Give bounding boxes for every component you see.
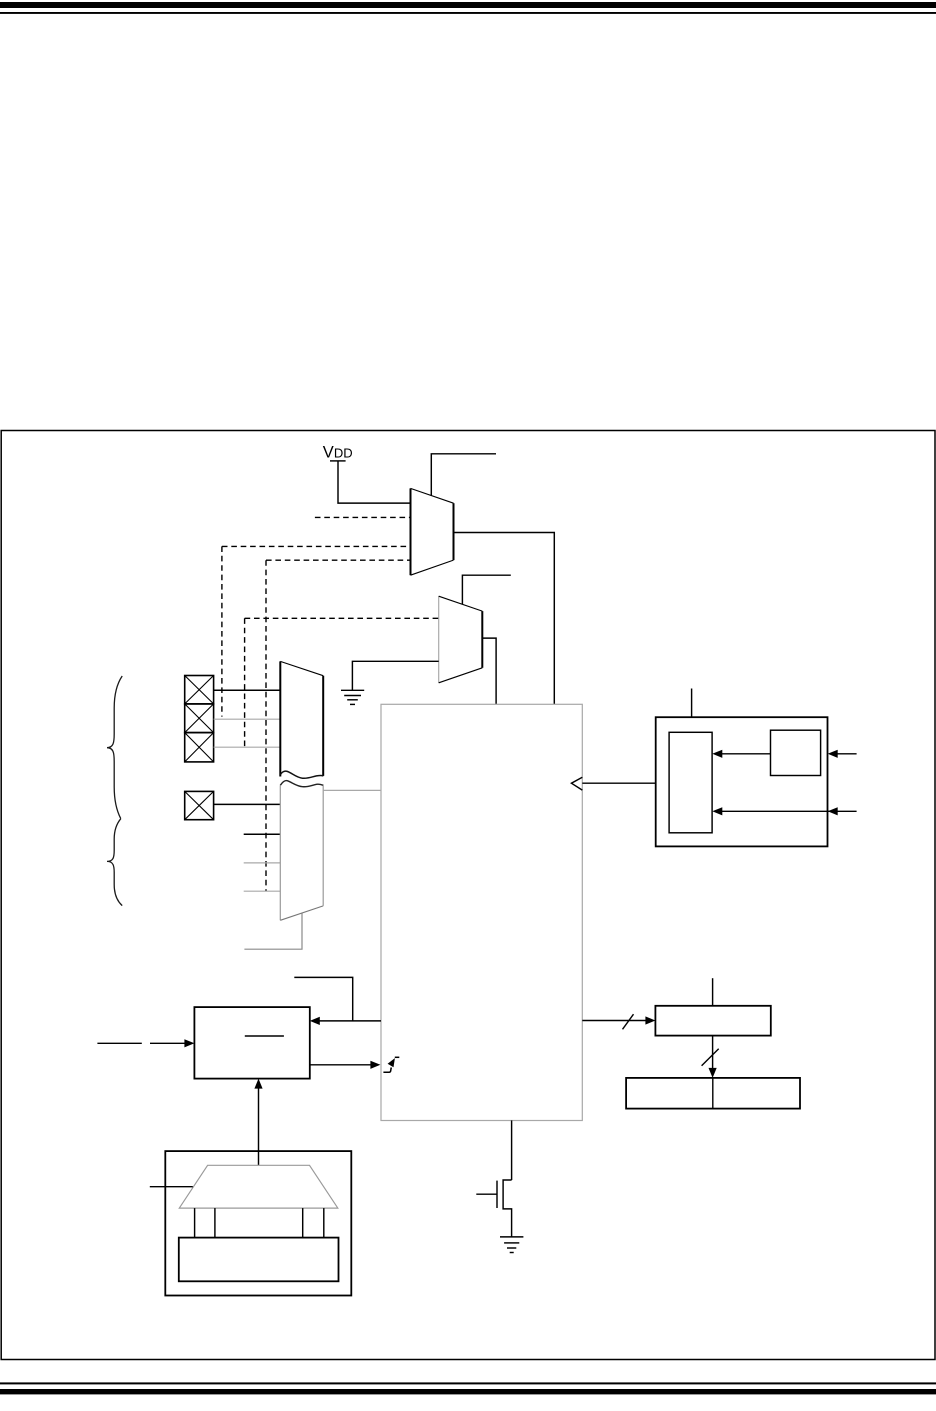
transistor Q1: [476, 1180, 511, 1237]
wire mux2 select: [462, 575, 510, 604]
crystal leg 1: [194, 1208, 196, 1238]
wire dashed mux1 input 3: [222, 545, 411, 547]
wire pad AN2 to input mux (greyed): [214, 746, 281, 748]
figure frame: [1, 431, 935, 1360]
wire A/D block to transistor Q1: [511, 1120, 513, 1180]
clock input chevron: [571, 777, 582, 790]
arrow prescale to divider: [712, 750, 770, 758]
clock logic box: [656, 717, 828, 846]
arrow select line (bottom): [712, 807, 856, 815]
A/D converter block (greyed): [381, 704, 582, 1120]
wire pad AN0 to input mux: [214, 689, 281, 691]
arrow control box to A/D block (start conversion): [310, 1061, 381, 1069]
wire dashed vertical net 3: [265, 560, 267, 891]
ground G1: [341, 690, 364, 704]
wire dashed vertical net 1: [221, 546, 223, 716]
result register pair box: [626, 1078, 800, 1109]
divider sub-block: [669, 732, 712, 833]
brace lower (input group): [107, 819, 122, 906]
oscillator trapezoid (greyed): [179, 1165, 337, 1208]
wire L from A/D block to control box: [294, 977, 352, 1021]
rising edge glyph: [383, 1057, 399, 1072]
pad AN0: [185, 676, 214, 704]
oscillator outer box: [165, 1151, 351, 1295]
arrow A/D block to control box: [310, 1017, 381, 1025]
header thick rule: [0, 2, 936, 8]
wire VDD to mux1 input: [338, 461, 411, 503]
break wave upper: [280, 771, 323, 778]
brace upper (analog pins group): [107, 676, 122, 819]
crystal body box: [179, 1238, 339, 1282]
arrow control input from left: [97, 1039, 194, 1047]
overbar of erased label: [245, 1035, 284, 1037]
wire conversion clock: [582, 782, 655, 784]
ground G2: [500, 1237, 523, 1253]
mux U1 (VREF+ select): [411, 488, 454, 575]
VDD power rail tick: [330, 460, 346, 462]
arrow register to result registers: [702, 1036, 719, 1078]
wire dashed mux2 input: [245, 617, 439, 619]
wire mux1 select: [431, 454, 496, 496]
crystal leg 2: [214, 1208, 216, 1238]
control box (ADCON): [194, 1007, 309, 1079]
wire input stub 5: [244, 833, 281, 835]
wire pad AN3 to input mux: [214, 803, 281, 805]
pad AN2: [185, 733, 214, 762]
wire VSS to mux2 input: [352, 661, 438, 690]
wire channel select (greyed): [244, 914, 302, 950]
wire dashed mux1 input 4: [266, 559, 411, 561]
prescale sub-block: [771, 730, 821, 775]
arrow oscillator to control box: [254, 1079, 262, 1166]
wire stub above register: [712, 978, 714, 1006]
footer thick rule: [0, 1389, 936, 1394]
break wave lower (greyed): [280, 781, 323, 787]
register box ADRESH: [655, 1006, 770, 1036]
pad AN3: [185, 791, 214, 819]
wire mux1 output to A/D block: [454, 533, 555, 705]
pad AN1: [185, 704, 214, 733]
analog input mux upper section: [280, 661, 323, 776]
crystal leg 3: [302, 1208, 304, 1238]
wire input stub 7 (greyed): [244, 890, 281, 892]
result register divider: [712, 1078, 714, 1109]
analog input mux lower section (greyed): [280, 785, 323, 920]
wire input mux output to A/D block (greyed): [323, 789, 381, 791]
arrow external clock in (top): [828, 750, 857, 758]
footer thin rule: [0, 1382, 936, 1384]
svg-text:VDD: VDD: [323, 444, 353, 462]
arrow result bus to ADRESH: [582, 1014, 655, 1029]
wire pad AN1 to input mux (greyed): [214, 718, 281, 720]
wire dashed mux1 input 2: [315, 516, 411, 518]
wire oscillator input: [150, 1186, 193, 1188]
crystal leg 4: [323, 1208, 325, 1238]
mux U2 (VREF- select): [439, 596, 483, 683]
wire stub above clock box: [691, 689, 693, 718]
wire mux2 output to A/D block: [482, 638, 496, 704]
wire input stub 6 (greyed): [244, 862, 281, 864]
header thin rule: [0, 12, 936, 14]
wire dashed vertical net 2: [244, 618, 246, 747]
